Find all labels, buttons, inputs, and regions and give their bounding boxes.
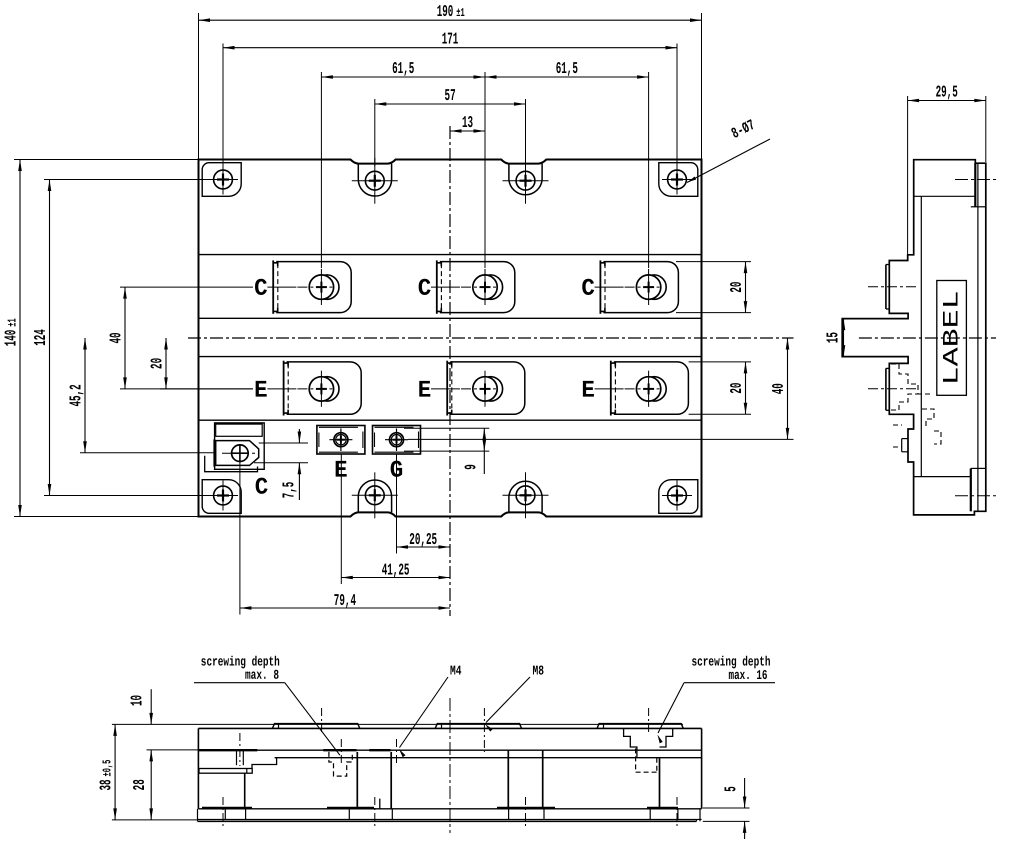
svg-text:10: 10 <box>128 695 147 706</box>
svg-text:61,5: 61,5 <box>392 59 414 78</box>
svg-text:C: C <box>581 276 595 303</box>
svg-text:38: 38 <box>97 779 116 790</box>
svg-text:190: 190 <box>437 2 454 21</box>
svg-text:C: C <box>254 276 268 303</box>
svg-text:C: C <box>255 475 269 502</box>
svg-text:E: E <box>418 378 432 405</box>
svg-text:20: 20 <box>727 282 746 293</box>
svg-text:15: 15 <box>824 332 843 343</box>
svg-text:E: E <box>581 378 595 405</box>
svg-text:E: E <box>254 378 268 405</box>
svg-text:124: 124 <box>31 329 50 346</box>
svg-text:±1: ±1 <box>456 6 464 20</box>
svg-text:13: 13 <box>462 113 473 132</box>
svg-text:28: 28 <box>130 779 149 790</box>
svg-text:79,4: 79,4 <box>334 591 356 610</box>
svg-text:20,25: 20,25 <box>409 530 437 549</box>
svg-text:9: 9 <box>462 464 481 470</box>
svg-text:5: 5 <box>722 786 741 792</box>
svg-text:57: 57 <box>445 86 456 105</box>
svg-text:41,25: 41,25 <box>382 560 410 579</box>
svg-text:29,5: 29,5 <box>936 82 958 101</box>
svg-text:45,2: 45,2 <box>67 384 86 406</box>
svg-text:140: 140 <box>2 330 21 347</box>
svg-text:C: C <box>418 276 432 303</box>
svg-text:M8: M8 <box>533 664 545 679</box>
svg-text:M4: M4 <box>450 664 462 679</box>
svg-text:7,5: 7,5 <box>280 482 299 499</box>
svg-text:±0,5: ±0,5 <box>101 760 115 777</box>
svg-text:171: 171 <box>442 30 459 49</box>
svg-text:max. 8: max. 8 <box>245 669 279 684</box>
svg-text:max. 16: max. 16 <box>728 669 767 684</box>
svg-text:±1: ±1 <box>6 318 20 326</box>
svg-text:20: 20 <box>148 358 167 369</box>
svg-text:20: 20 <box>727 383 746 394</box>
svg-text:61,5: 61,5 <box>556 59 578 78</box>
svg-text:LABEL: LABEL <box>939 290 965 385</box>
svg-text:40: 40 <box>107 332 126 343</box>
svg-text:40: 40 <box>769 383 788 394</box>
